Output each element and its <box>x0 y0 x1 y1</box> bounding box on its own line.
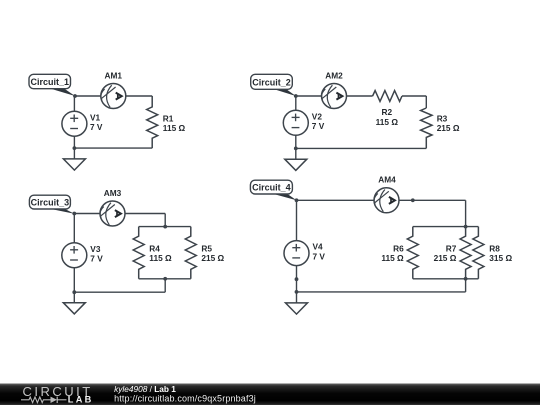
wire node3 to V3 <box>73 214 75 243</box>
wire node2 to AM2 <box>296 95 322 97</box>
svg-text:115 Ω: 115 Ω <box>376 117 399 127</box>
label AM3 <box>104 188 122 198</box>
label V3 7V <box>90 244 103 264</box>
svg-text:115 Ω: 115 Ω <box>163 123 186 133</box>
junction bottom bus c4 <box>464 277 468 281</box>
label R4 value 115 ohm <box>149 244 172 264</box>
ground circuit4 <box>286 303 308 314</box>
label V4 7V <box>313 242 326 262</box>
ammeter AM1 <box>101 84 126 109</box>
svg-text:V4: V4 <box>313 242 324 252</box>
svg-text:R1: R1 <box>163 114 174 124</box>
ground circuit1 <box>63 159 85 170</box>
svg-text:V3: V3 <box>90 244 101 254</box>
svg-text:215 Ω: 215 Ω <box>437 123 460 133</box>
label AM1 <box>105 70 123 80</box>
label R8 value 315 ohm <box>489 244 512 264</box>
wire V4 to ground <box>296 266 298 303</box>
wire R2 to corner <box>402 96 426 108</box>
junction top bus c4 <box>464 225 468 229</box>
label V2 7V <box>312 111 325 131</box>
wire node4 to V4 <box>296 200 298 240</box>
svg-text:AM3: AM3 <box>104 188 122 198</box>
node label Circuit_3 <box>29 195 74 214</box>
wire top bus circuit4 <box>413 226 479 228</box>
svg-text:V2: V2 <box>312 111 323 121</box>
svg-text:R2: R2 <box>381 107 392 117</box>
junction V1 bottom <box>73 146 77 150</box>
ammeter AM2 <box>322 84 347 109</box>
voltage source V2 <box>283 110 308 135</box>
resistor R6 <box>407 227 418 279</box>
svg-text:LAB: LAB <box>68 395 94 405</box>
wire bottom circuit4 <box>297 291 466 293</box>
svg-text:AM4: AM4 <box>378 174 396 184</box>
svg-text:215 Ω: 215 Ω <box>434 253 457 263</box>
wire node2 to V2 <box>295 96 297 110</box>
label R2 value 115 ohm <box>376 107 399 127</box>
wire node1 to AM1 <box>75 95 101 97</box>
svg-text:R3: R3 <box>437 114 448 124</box>
svg-text:215 Ω: 215 Ω <box>201 253 224 263</box>
label AM4 <box>378 174 396 184</box>
junction node4 <box>295 198 299 202</box>
node label Circuit_2 <box>251 74 296 96</box>
ground circuit2 <box>285 159 307 170</box>
svg-text:Circuit_1: Circuit_1 <box>30 77 69 87</box>
svg-text:115 Ω: 115 Ω <box>149 253 172 263</box>
svg-text:R8: R8 <box>489 244 500 254</box>
label R7 value 215 ohm <box>434 244 457 264</box>
wire AM4 to corner <box>399 200 466 226</box>
wire V1 to ground <box>73 136 75 159</box>
wire V3 to ground <box>73 268 75 303</box>
label R6 value 115 ohm <box>381 244 404 264</box>
svg-text:V1: V1 <box>90 112 101 122</box>
node label Circuit_1 <box>29 74 75 96</box>
resistor R4 <box>133 227 144 279</box>
resistor R3 <box>421 108 432 148</box>
svg-text:R6: R6 <box>393 244 404 254</box>
svg-text:Circuit_2: Circuit_2 <box>252 78 291 88</box>
voltage source V1 <box>62 111 87 136</box>
junction after AM4 <box>411 198 415 202</box>
label R1 value 115 ohm <box>163 114 186 134</box>
svg-text:Circuit_3: Circuit_3 <box>31 197 70 207</box>
wire bottom circuit2 <box>296 147 427 149</box>
svg-text:Circuit_4: Circuit_4 <box>252 182 291 192</box>
label R5 value 215 ohm <box>201 244 224 264</box>
wire bottom circuit3 <box>74 291 165 293</box>
logo LAB text <box>68 395 94 405</box>
wire node3 to AM3 <box>74 213 100 215</box>
junction V4 bottom <box>295 290 299 294</box>
junction node1 <box>73 94 77 98</box>
resistor R5 <box>185 227 196 279</box>
junction node3 <box>72 212 76 216</box>
voltage source V3 <box>62 243 87 268</box>
junction bottom bus c3 <box>163 277 167 281</box>
junction node2 <box>294 94 298 98</box>
logo mini circuit doodle <box>21 397 67 403</box>
label R3 value 215 ohm <box>437 114 460 134</box>
svg-text:http://circuitlab.com/c9qx5rpn: http://circuitlab.com/c9qx5rpnbaf3j <box>114 394 256 404</box>
resistor R8 <box>473 227 484 279</box>
junction top bus c3 <box>163 225 167 229</box>
wire AM2 to R2 <box>347 95 373 97</box>
node label Circuit_4 <box>250 180 296 200</box>
svg-text:315 Ω: 315 Ω <box>489 253 512 263</box>
wire AM1 to R1 <box>126 95 152 97</box>
svg-text:AM2: AM2 <box>325 70 343 80</box>
junction V3 bottom <box>72 290 76 294</box>
logo CIRCUIT text <box>23 384 93 399</box>
resistor R7 <box>460 227 471 279</box>
label AM2 <box>325 70 343 80</box>
svg-text:7 V: 7 V <box>90 254 103 264</box>
junction V2 bottom <box>294 147 298 151</box>
wire node1 to V1 <box>73 96 75 111</box>
svg-text:115 Ω: 115 Ω <box>381 253 404 263</box>
wire bottom bus circuit3 <box>139 279 191 292</box>
junction V4 stub <box>295 277 299 281</box>
svg-text:R4: R4 <box>149 244 160 254</box>
wire V2 to ground <box>295 135 297 159</box>
ground circuit3 <box>63 303 85 314</box>
label V1 7V <box>90 112 103 132</box>
wire node4 to AM4 <box>297 199 375 201</box>
resistor R1 <box>147 96 158 148</box>
footer url <box>114 394 256 404</box>
resistor R2 <box>373 91 402 102</box>
wire top bus circuit3 <box>139 226 191 228</box>
svg-text:7 V: 7 V <box>313 251 326 261</box>
wire bottom bus circuit4 <box>413 279 479 292</box>
ammeter AM3 <box>100 201 125 226</box>
wire AM3 to parallel bus <box>125 214 165 227</box>
svg-text:7 V: 7 V <box>312 121 325 131</box>
voltage source V4 <box>284 241 309 266</box>
footer title kyle4908 / Lab 1 <box>114 384 176 394</box>
wire bottom circuit1 <box>74 147 152 149</box>
svg-text:R7: R7 <box>446 244 457 254</box>
svg-text:AM1: AM1 <box>105 70 123 80</box>
svg-text:7 V: 7 V <box>90 122 103 132</box>
svg-text:R5: R5 <box>201 244 212 254</box>
ammeter AM4 <box>374 188 399 213</box>
